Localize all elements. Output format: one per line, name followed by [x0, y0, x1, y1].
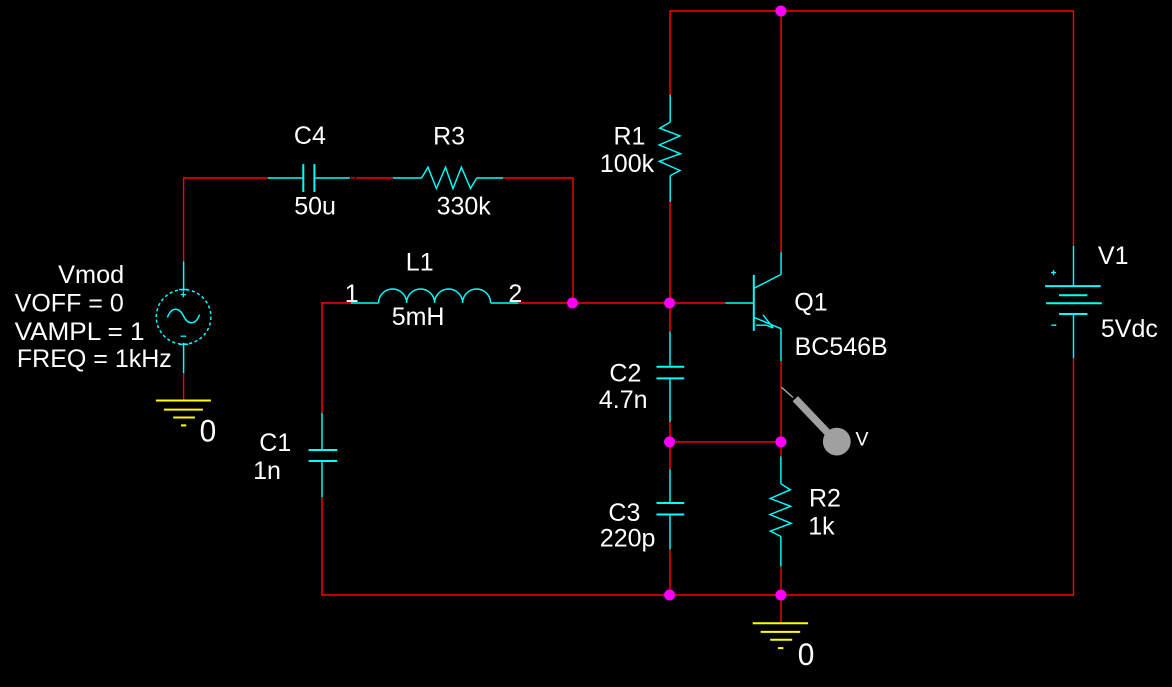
- svg-text:VOFF = 0: VOFF = 0: [15, 290, 124, 318]
- svg-text:330k: 330k: [437, 193, 492, 221]
- voltage source Vmod: [156, 261, 211, 373]
- capacitor C3: [657, 469, 685, 549]
- junction dot mid left: [664, 436, 675, 447]
- svg-text:Q1: Q1: [794, 288, 827, 316]
- svg-text:2: 2: [508, 280, 522, 308]
- svg-text:C4: C4: [294, 122, 326, 150]
- svg-text:1n: 1n: [253, 457, 281, 485]
- wire C4-R3 dash b: [356, 177, 393, 179]
- wire C2 top stem: [669, 303, 671, 332]
- wire R1 bottom stem: [669, 202, 671, 303]
- svg-text:VAMPL = 1: VAMPL = 1: [15, 318, 145, 346]
- transistor Q1: [726, 252, 782, 361]
- ground 0 left: [156, 401, 211, 426]
- resistor R1: [659, 95, 680, 202]
- inductor L1: [351, 289, 518, 303]
- svg-text:V1: V1: [1098, 242, 1129, 270]
- svg-text:L1: L1: [406, 248, 434, 276]
- svg-text:C2: C2: [609, 360, 641, 388]
- svg-text:50u: 50u: [294, 193, 336, 221]
- wire Vmod top corner: [184, 178, 268, 261]
- junction dot bottom right: [775, 590, 786, 601]
- svg-text:V: V: [856, 428, 869, 450]
- junction dot mid right: [775, 436, 786, 447]
- capacitor C1: [309, 413, 338, 497]
- svg-text:BC546B: BC546B: [795, 333, 888, 361]
- svg-text:4.7n: 4.7n: [599, 386, 648, 414]
- svg-text:FREQ = 1kHz: FREQ = 1kHz: [17, 345, 172, 373]
- wire R1 top stem: [669, 10, 671, 95]
- wire V1 bottom stem: [1073, 358, 1075, 596]
- resistor R2: [770, 457, 791, 567]
- wire Q1 emitter stem: [780, 361, 782, 442]
- wire R3 corner drop: [503, 178, 573, 303]
- wire C2 bottom stem: [669, 422, 671, 442]
- wire top rail (V+ net): [670, 10, 1074, 12]
- svg-text:1: 1: [345, 280, 359, 308]
- wire Vmod to ground: [183, 373, 185, 400]
- wire mid node row: [670, 441, 781, 443]
- svg-text:R3: R3: [433, 122, 465, 150]
- ground 0 right: [753, 623, 808, 648]
- junction dot R3 drop: [567, 298, 578, 309]
- voltage probe: [782, 387, 851, 455]
- svg-text:R2: R2: [809, 485, 841, 513]
- svg-text:Vmod: Vmod: [58, 261, 124, 289]
- junction dot top rail: [775, 6, 786, 17]
- svg-text:R1: R1: [614, 122, 646, 150]
- capacitor C2: [657, 332, 685, 423]
- svg-text:5mH: 5mH: [392, 303, 445, 331]
- wire L1 to Q1 base: [518, 302, 725, 304]
- wire C3 bottom stem: [669, 550, 671, 596]
- svg-text:1k: 1k: [808, 513, 835, 541]
- battery V1: [1045, 246, 1102, 358]
- junction dot bottom left: [664, 590, 675, 601]
- wire R2 top stem: [780, 442, 782, 457]
- wire C3 top stem: [669, 442, 671, 469]
- svg-text:C1: C1: [259, 429, 291, 457]
- wire C1 bottom stem: [321, 497, 323, 596]
- svg-text:220p: 220p: [600, 525, 656, 553]
- wire C1 top stem: [321, 302, 323, 413]
- junction dot C2 top: [664, 298, 675, 309]
- svg-text:0: 0: [200, 413, 217, 449]
- wire R2 bottom stem: [780, 566, 782, 595]
- svg-text:C3: C3: [608, 499, 640, 527]
- wire bottom rail (ground net): [322, 594, 1074, 596]
- wire right ground stem: [780, 595, 782, 623]
- capacitor C4: [268, 164, 350, 192]
- resistor R3: [393, 167, 503, 188]
- svg-text:100k: 100k: [600, 150, 655, 178]
- wire C4-R3 dash a: [351, 177, 355, 179]
- wire V1 top stem: [1073, 10, 1075, 246]
- wire Q1 collector stem: [780, 11, 782, 252]
- svg-text:5Vdc: 5Vdc: [1101, 315, 1158, 343]
- svg-text:0: 0: [798, 636, 815, 672]
- wire L1 left stub: [321, 302, 351, 304]
